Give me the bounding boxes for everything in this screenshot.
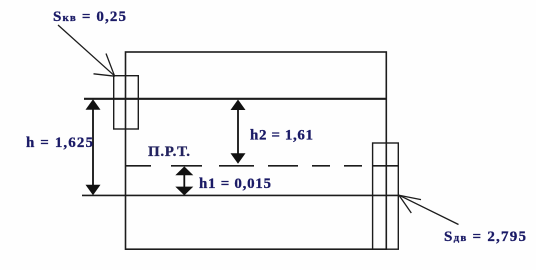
pipe (top-left, Sкв) xyxy=(114,76,139,129)
tank outline xyxy=(126,52,387,249)
leader arrow Sкв xyxy=(58,25,115,76)
arrow h1 (small, double-headed) xyxy=(175,166,193,195)
svg-text:h1 = 0,015: h1 = 0,015 xyxy=(199,176,271,192)
lower solid level line xyxy=(82,194,398,196)
water surface line xyxy=(84,98,386,100)
arrow h (left, double-headed) xyxy=(86,99,101,195)
arrow h2 (middle, double-headed) xyxy=(231,100,246,164)
leader arrow Sдв xyxy=(399,195,459,224)
dashed line П.Р.Т. xyxy=(126,165,370,167)
svg-text:h2 = 1,61: h2 = 1,61 xyxy=(250,128,313,144)
svg-text:Sдв = 2,795: Sдв = 2,795 xyxy=(444,229,526,245)
svg-text:П.Р.Т.: П.Р.Т. xyxy=(148,144,190,160)
pipe (bottom-right, Sдв) xyxy=(373,143,399,249)
svg-text:Sкв = 0,25: Sкв = 0,25 xyxy=(53,9,126,25)
svg-text:h = 1,625: h = 1,625 xyxy=(26,135,93,151)
